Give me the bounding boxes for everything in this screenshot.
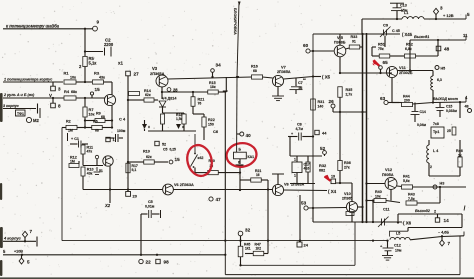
svg-text:5,1к: 5,1к bbox=[89, 61, 98, 66]
svg-text:2: 2 bbox=[430, 165, 432, 169]
svg-text:4,7м: 4,7м bbox=[296, 127, 304, 131]
svg-text:к42: к42 bbox=[198, 156, 204, 160]
svg-text:С12: С12 bbox=[394, 244, 401, 248]
svg-text:( Х5: ( Х5 bbox=[322, 75, 331, 80]
svg-text:R35: R35 bbox=[346, 88, 353, 92]
svg-text:7х8: 7х8 bbox=[433, 122, 439, 126]
svg-text:0,25: 0,25 bbox=[170, 148, 177, 152]
svg-text:27к: 27к bbox=[344, 166, 350, 170]
svg-text:R46: R46 bbox=[456, 149, 463, 153]
svg-text:6,3: 6,3 bbox=[437, 78, 442, 82]
svg-text:V12: V12 bbox=[385, 167, 393, 172]
svg-text:V4 Д814: V4 Д814 bbox=[162, 97, 177, 101]
svg-text:2: 2 bbox=[434, 210, 436, 214]
svg-text:32: 32 bbox=[245, 228, 251, 233]
svg-text:V: V bbox=[49, 93, 52, 98]
svg-text:34: 34 bbox=[216, 63, 222, 68]
svg-text:R7: R7 bbox=[89, 107, 95, 112]
svg-text:х: х bbox=[148, 125, 150, 129]
svg-text:53: 53 bbox=[301, 201, 307, 206]
svg-text:2П365А: 2П365А bbox=[277, 70, 291, 74]
svg-text:27: 27 bbox=[134, 72, 140, 77]
svg-text:0,01м: 0,01м bbox=[145, 205, 155, 209]
svg-text:V11: V11 bbox=[399, 65, 407, 70]
svg-text:4 корпус: 4 корпус bbox=[3, 236, 22, 241]
svg-text:V7: V7 bbox=[281, 65, 287, 70]
svg-text:11: 11 bbox=[463, 33, 468, 38]
svg-text:С14: С14 bbox=[420, 110, 426, 114]
svg-text:47к: 47к bbox=[87, 150, 93, 154]
svg-text:R31: R31 bbox=[318, 100, 325, 104]
svg-text:L1: L1 bbox=[404, 11, 408, 15]
svg-text:R32: R32 bbox=[319, 163, 327, 168]
svg-text:R6: R6 bbox=[93, 120, 98, 124]
svg-text:416: 416 bbox=[304, 167, 310, 171]
svg-text:( Х4: ( Х4 bbox=[328, 189, 337, 194]
svg-text:R52: R52 bbox=[406, 43, 413, 47]
svg-text:68: 68 bbox=[101, 115, 105, 119]
svg-text:60: 60 bbox=[303, 43, 309, 48]
svg-text:200: 200 bbox=[404, 99, 410, 103]
svg-text:П605А: П605А bbox=[382, 173, 394, 177]
svg-text:Н3: Н3 bbox=[440, 182, 445, 186]
svg-text:R36: R36 bbox=[344, 161, 351, 165]
svg-text:18к: 18к bbox=[210, 85, 216, 89]
svg-text:БЛОКИРОВКА: БЛОКИРОВКА bbox=[233, 8, 237, 35]
svg-text:22: 22 bbox=[146, 260, 152, 265]
svg-text:52: 52 bbox=[320, 146, 326, 151]
svg-text:68: 68 bbox=[95, 129, 99, 133]
svg-text:15: 15 bbox=[95, 87, 101, 92]
svg-text:3: 3 bbox=[58, 87, 61, 92]
svg-text:2,7к: 2,7к bbox=[346, 93, 353, 97]
svg-text:С9: С9 bbox=[383, 23, 389, 28]
svg-text:40: 40 bbox=[246, 133, 252, 138]
svg-text:+10В: +10В bbox=[14, 250, 23, 254]
svg-text:С8: С8 bbox=[297, 123, 302, 127]
svg-text:2 руль А и Б (вх): 2 руль А и Б (вх) bbox=[3, 93, 35, 97]
svg-text:56: 56 bbox=[299, 86, 303, 90]
svg-text:16: 16 bbox=[256, 173, 260, 177]
svg-text:R40: R40 bbox=[375, 190, 382, 194]
svg-text:65: 65 bbox=[383, 60, 389, 65]
svg-text:V10: V10 bbox=[344, 192, 351, 196]
svg-text:Н5: Н5 bbox=[441, 67, 446, 71]
svg-text:1К2: 1К2 bbox=[256, 247, 262, 251]
svg-text:R2: R2 bbox=[66, 120, 71, 124]
svg-text:8: 8 bbox=[58, 104, 61, 109]
svg-text:2П363А: 2П363А bbox=[291, 183, 305, 187]
svg-text:Выход1: Выход1 bbox=[414, 34, 429, 39]
svg-text:С15: С15 bbox=[446, 105, 452, 109]
svg-text:1: 1 bbox=[294, 174, 296, 178]
svg-text:76: 76 bbox=[198, 102, 202, 106]
svg-text:7: 7 bbox=[448, 241, 451, 246]
svg-text:63: 63 bbox=[380, 96, 386, 101]
svg-text:26: 26 bbox=[329, 99, 335, 104]
svg-text:R4: R4 bbox=[64, 89, 70, 94]
svg-text:L 4: L 4 bbox=[433, 149, 439, 153]
svg-text:Тр1: Тр1 bbox=[433, 130, 439, 134]
svg-text:R1: R1 bbox=[64, 71, 70, 76]
svg-text:М2: М2 bbox=[33, 118, 39, 123]
svg-text:140: 140 bbox=[318, 105, 324, 109]
svg-text:R43: R43 bbox=[408, 193, 415, 197]
svg-text:68: 68 bbox=[253, 69, 257, 73]
svg-text:КА1: КА1 bbox=[248, 155, 255, 159]
svg-text:С6: С6 bbox=[213, 129, 219, 134]
svg-text:R22: R22 bbox=[208, 118, 215, 122]
svg-text:43к: 43к bbox=[99, 76, 105, 80]
svg-text:1М: 1М bbox=[70, 160, 75, 164]
svg-text:52: 52 bbox=[162, 143, 166, 147]
svg-text:68к: 68к bbox=[71, 90, 77, 94]
svg-text:1: 1 bbox=[294, 158, 296, 162]
svg-text:5,6к: 5,6к bbox=[403, 179, 410, 183]
svg-text:− 4,6Б: − 4,6Б bbox=[438, 231, 449, 235]
svg-text:3: 3 bbox=[440, 6, 443, 11]
svg-text:150: 150 bbox=[208, 123, 214, 127]
svg-text:к потенциометру шайба: к потенциометру шайба bbox=[6, 24, 60, 29]
svg-text:25: 25 bbox=[447, 129, 451, 133]
svg-text:75к: 75к bbox=[378, 47, 384, 51]
svg-text:10к: 10к bbox=[70, 76, 76, 80]
svg-text:1 потенциометра корпус: 1 потенциометра корпус bbox=[4, 78, 52, 82]
svg-text:С5: С5 bbox=[148, 200, 153, 204]
svg-text:5: 5 bbox=[467, 12, 470, 17]
svg-text:R41: R41 bbox=[403, 175, 410, 179]
svg-text:R19: R19 bbox=[143, 150, 150, 154]
svg-text:0,033м: 0,033м bbox=[446, 109, 457, 113]
svg-text:10м: 10м bbox=[395, 249, 402, 253]
svg-text:91: 91 bbox=[352, 40, 356, 44]
svg-text:( Х6: ( Х6 bbox=[403, 221, 412, 226]
svg-text:682: 682 bbox=[319, 169, 325, 173]
svg-text:С13: С13 bbox=[400, 4, 407, 8]
svg-text:С 4: С 4 bbox=[119, 117, 126, 122]
svg-text:ВЫХОД мост: ВЫХОД мост bbox=[433, 97, 459, 101]
svg-text:3 корпус: 3 корпус bbox=[3, 104, 19, 108]
svg-text:С11: С11 bbox=[383, 208, 390, 212]
svg-text:6,8к: 6,8к bbox=[405, 47, 412, 51]
svg-text:5: 5 bbox=[27, 260, 30, 265]
svg-text:ТФ1: ТФ1 bbox=[17, 112, 24, 116]
svg-text:1,5к: 1,5к bbox=[176, 117, 183, 121]
svg-text:51: 51 bbox=[99, 169, 103, 173]
svg-text:V6 2П363А: V6 2П363А bbox=[174, 183, 194, 187]
svg-text:+ С1: + С1 bbox=[71, 137, 79, 141]
svg-text:7: 7 bbox=[30, 229, 33, 234]
svg-text:+ 12В: + 12В bbox=[443, 13, 454, 18]
svg-text:R51: R51 bbox=[378, 43, 385, 47]
svg-text:С 45: С 45 bbox=[392, 29, 400, 33]
svg-text:R16: R16 bbox=[251, 65, 258, 69]
svg-text:43к: 43к bbox=[87, 172, 93, 176]
svg-text:0,04м: 0,04м bbox=[417, 123, 427, 127]
svg-text:С5: С5 bbox=[163, 148, 168, 152]
svg-text:48: 48 bbox=[465, 105, 469, 109]
svg-text:Выход2: Выход2 bbox=[415, 209, 431, 213]
svg-text:48: 48 bbox=[444, 47, 450, 52]
svg-text:98: 98 bbox=[164, 260, 170, 265]
svg-text:2П302Б: 2П302Б bbox=[399, 71, 413, 75]
svg-text:100м: 100м bbox=[117, 129, 126, 133]
svg-text:19: 19 bbox=[331, 175, 335, 179]
svg-text:2200: 2200 bbox=[104, 42, 114, 47]
svg-text:62к: 62к bbox=[145, 93, 151, 97]
svg-text:х1: х1 bbox=[118, 61, 123, 66]
svg-text:х: х bbox=[182, 125, 184, 129]
svg-text:7,5к: 7,5к bbox=[408, 197, 415, 201]
svg-text:R33: R33 bbox=[351, 35, 358, 39]
svg-text:( Х45: ( Х45 bbox=[402, 32, 413, 37]
svg-text:9: 9 bbox=[97, 20, 100, 25]
svg-text:1К1: 1К1 bbox=[245, 247, 251, 251]
svg-text:Х2: Х2 bbox=[104, 203, 111, 208]
svg-text:10к: 10к bbox=[375, 195, 381, 199]
svg-text:14: 14 bbox=[444, 218, 450, 223]
svg-text:10к: 10к bbox=[89, 113, 95, 117]
svg-text:1М: 1М bbox=[68, 129, 73, 133]
svg-text:47: 47 bbox=[216, 197, 222, 202]
svg-text:9,1: 9,1 bbox=[132, 168, 137, 172]
